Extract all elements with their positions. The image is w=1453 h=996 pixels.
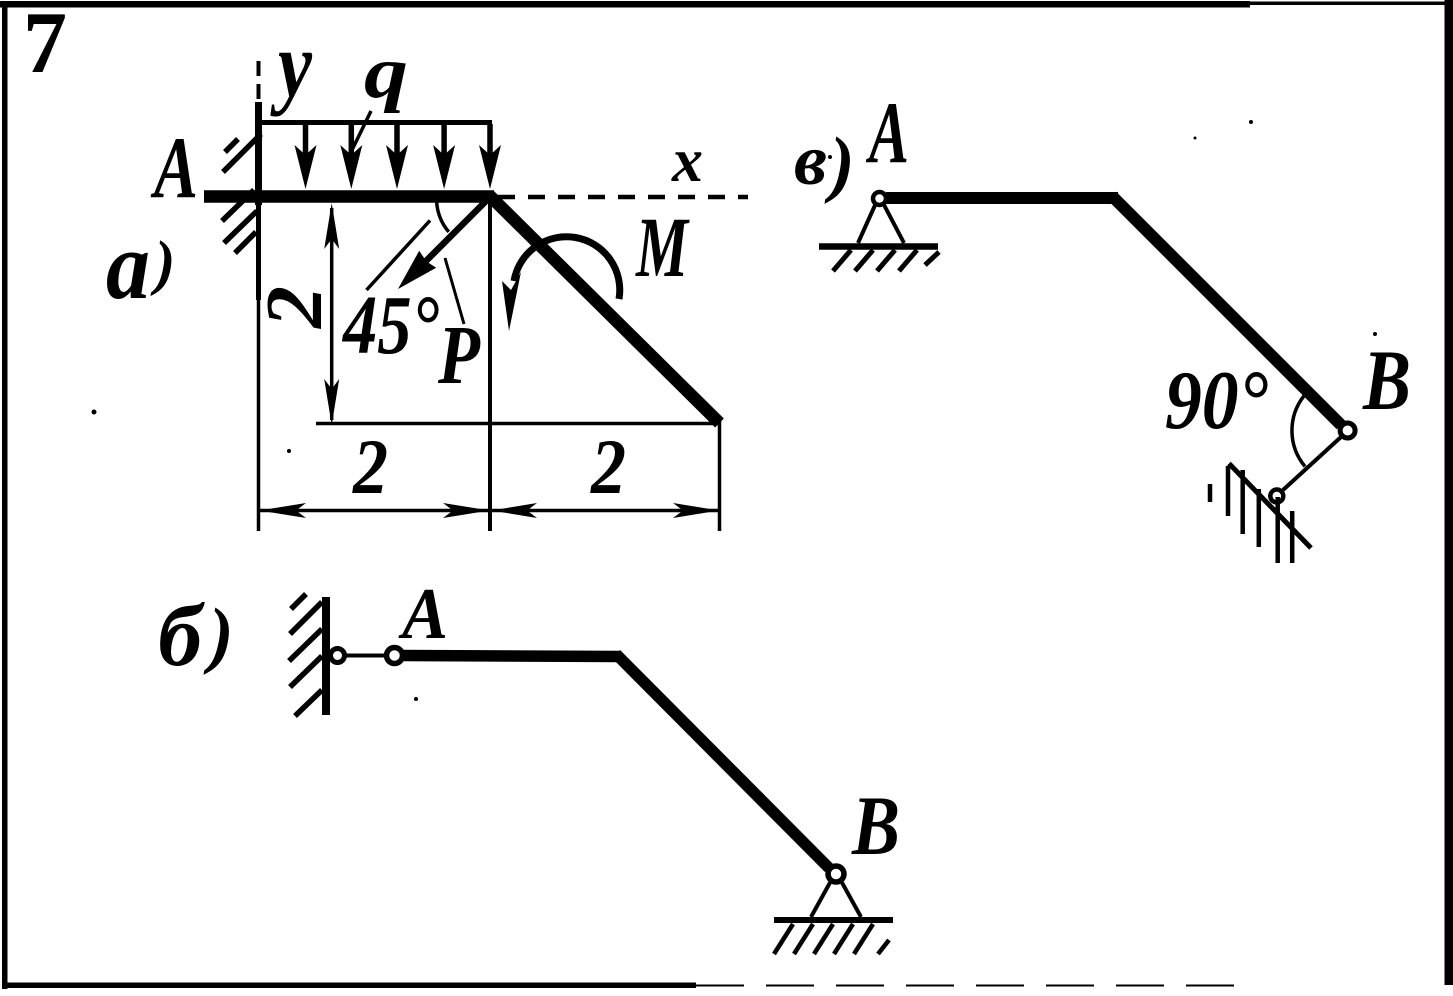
- wall line / left extension line: [255, 102, 262, 205]
- vertical dimension line with two arrowheads: [330, 208, 334, 420]
- support triangle legs: [858, 203, 876, 243]
- load arrow 1: [295, 124, 317, 189]
- q leader line: [352, 111, 371, 150]
- link bar: [344, 654, 386, 658]
- svg-text:A: A: [398, 573, 448, 654]
- 90 deg angle arc: [1292, 396, 1305, 467]
- svg-text:2: 2: [352, 423, 388, 510]
- pin circle at wall: [331, 649, 345, 663]
- frame top border: [0, 1, 1250, 8]
- beam horizontal: [886, 192, 1118, 204]
- svg-text:P: P: [437, 309, 480, 402]
- svg-text:A: A: [866, 85, 909, 182]
- beam diagonal: [1112, 196, 1341, 425]
- support triangle legs: [811, 879, 832, 917]
- frame bottom border: [2, 983, 696, 989]
- pin circle at B: [1340, 423, 1355, 438]
- svg-text:a: a: [106, 212, 150, 319]
- link bar at B: [1283, 437, 1341, 490]
- pin circle lower: [1270, 490, 1283, 503]
- svg-text:A: A: [150, 120, 198, 217]
- base line of triangle: [316, 422, 719, 426]
- inclined ground hatching: [1228, 466, 1292, 563]
- svg-text:в: в: [794, 120, 827, 200]
- moment M arrowhead: [502, 272, 521, 331]
- load arrow 4: [433, 124, 455, 189]
- force P shaft: [424, 200, 487, 263]
- 45-deg angle arc: [437, 201, 449, 232]
- wall line: [322, 597, 330, 715]
- dim arrowhead mid-left: [443, 503, 490, 518]
- load arrow 5: [479, 124, 501, 189]
- diagonal beam: [489, 195, 720, 423]
- thin 45-deg reference line: [367, 221, 431, 291]
- pin circle at A: [873, 192, 886, 205]
- ground hatching: [833, 250, 939, 271]
- beam AB horizontal: [204, 190, 494, 203]
- scan noise dots: [92, 120, 1378, 701]
- ground line: [819, 243, 938, 250]
- inclined ground line: [1229, 464, 1311, 549]
- right extension line: [718, 421, 722, 531]
- svg-text:45°: 45°: [341, 279, 439, 372]
- wall hatching at A: [222, 134, 261, 253]
- ground line: [774, 917, 893, 923]
- force P arrowhead: [398, 251, 436, 289]
- svg-text:q: q: [364, 32, 408, 114]
- svg-text:2: 2: [251, 286, 339, 329]
- svg-text:B: B: [851, 779, 900, 873]
- svg-text:б: б: [158, 588, 205, 685]
- vertical extension under corner: [488, 197, 492, 531]
- pin circle at A: [387, 648, 403, 664]
- bottom dimension line: [259, 509, 720, 513]
- moment M arc: [514, 237, 620, 299]
- ground hatching: [774, 924, 889, 954]
- svg-text:M: M: [635, 199, 690, 295]
- beam horizontal: [403, 656, 620, 657]
- frame left border: [2, 1, 8, 989]
- svg-text:7: 7: [23, 0, 67, 92]
- stray mark: [1208, 484, 1213, 502]
- y axis dashed: [257, 61, 261, 120]
- frame right border: [1445, 0, 1453, 985]
- load arrow 2: [340, 124, 362, 189]
- svg-text:x: x: [671, 127, 703, 195]
- x axis dashed: [498, 195, 748, 200]
- dim arrowhead left: [260, 503, 307, 518]
- svg-text:90°: 90°: [1165, 354, 1268, 447]
- distributed load top line: [257, 120, 493, 125]
- beam diagonal: [616, 654, 829, 868]
- P label leader line: [445, 258, 464, 324]
- dim arrowhead right: [673, 503, 719, 518]
- dim arrowhead mid-right: [492, 503, 538, 518]
- pin circle at B: [828, 866, 844, 882]
- load arrow 3: [386, 124, 408, 189]
- wall hatching: [289, 594, 322, 716]
- svg-text:2: 2: [590, 423, 626, 510]
- svg-text:B: B: [1362, 332, 1411, 428]
